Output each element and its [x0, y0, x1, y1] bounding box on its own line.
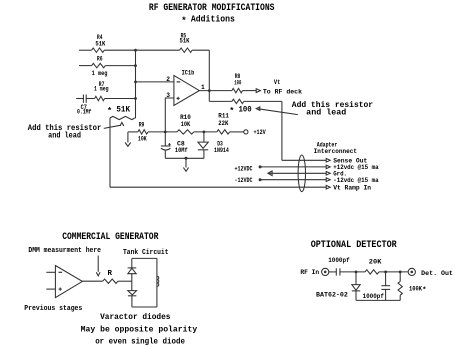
svg-text:1N914: 1N914	[214, 147, 229, 154]
label RF In	[300, 269, 319, 276]
node pin2 junction	[134, 81, 137, 84]
wire gnd to R9	[128, 131, 138, 133]
note add this resistor right	[292, 100, 373, 110]
arrow -12vdc	[326, 178, 330, 182]
svg-text:51K: 51K	[116, 107, 130, 115]
svg-text:1 meg: 1 meg	[94, 86, 109, 93]
label +12V	[254, 129, 266, 136]
svg-text:1000pf: 1000pf	[363, 293, 385, 300]
value C8 10Mf	[175, 147, 188, 154]
value R8 100	[234, 80, 241, 87]
resistor pot 51K	[110, 116, 135, 119]
wire cap to 20K	[340, 271, 365, 273]
wire +12vdc	[260, 166, 326, 168]
label R	[108, 270, 113, 278]
svg-text:To RF deck: To RF deck	[263, 88, 302, 95]
svg-text:R6: R6	[97, 56, 103, 63]
value R5 51K	[180, 38, 190, 45]
node diode junction	[355, 271, 358, 274]
label Adapter	[317, 141, 338, 148]
svg-text:10K: 10K	[138, 136, 147, 143]
label R9	[139, 122, 145, 129]
arrow +12vdc	[326, 165, 330, 169]
wire to op-amp pin 2	[136, 81, 174, 83]
node cap2 junction	[384, 271, 387, 274]
svg-text:1000pf: 1000pf	[328, 257, 350, 264]
node +12vdc dot	[259, 165, 262, 168]
svg-text:or even single diode: or even single diode	[95, 338, 185, 346]
svg-text:Vt Ramp In: Vt Ramp In	[333, 184, 371, 191]
wire star100 left	[209, 100, 232, 102]
op-amp U2 plus	[59, 288, 62, 291]
note or even single diode	[95, 338, 185, 346]
tank bottom rail	[132, 306, 157, 308]
wire diode stem	[355, 272, 357, 285]
inductor L1	[157, 276, 159, 286]
wire sense vertical	[281, 101, 283, 160]
wire C8-D3 rail	[165, 157, 204, 159]
op-amp plus sign	[177, 97, 180, 100]
wire R5 right corner	[192, 49, 209, 51]
svg-text:*: *	[181, 15, 187, 26]
svg-text:Tank Circuit: Tank Circuit	[123, 249, 169, 257]
arrow grd left	[268, 171, 272, 176]
value R7 1 meg	[94, 86, 109, 93]
resistor 20K	[365, 270, 379, 274]
value R10 10K	[181, 121, 191, 128]
node R7 junction	[134, 97, 137, 100]
svg-text:DMM measurment here: DMM measurment here	[28, 247, 101, 255]
label C8	[177, 141, 185, 148]
wire R10 to R11	[194, 131, 217, 133]
value 20K	[369, 259, 382, 266]
tank left stem	[131, 258, 133, 268]
label R7	[99, 81, 105, 88]
resistor R8	[232, 88, 243, 92]
wire pot left down	[109, 118, 111, 187]
resistor star 100	[232, 99, 244, 103]
capacitor C8	[161, 143, 171, 150]
title text RF GENERATOR MODIFICATIONS	[149, 2, 275, 13]
wire varactor bottom stem	[131, 296, 133, 307]
resistor R9	[138, 130, 148, 134]
detector bottom rail	[356, 299, 400, 301]
label Interconnect	[314, 148, 358, 155]
label -12VDC	[235, 177, 253, 184]
svg-text:51K: 51K	[95, 41, 105, 48]
wire feedback vertical	[208, 50, 210, 101]
resistor R11	[217, 130, 230, 134]
varactor D_bottom	[128, 291, 137, 296]
wire R9 to junction	[148, 131, 177, 133]
arrow to RF deck	[256, 89, 260, 93]
svg-text:Vt: Vt	[274, 79, 280, 86]
resistor R4	[92, 48, 105, 52]
svg-text:100: 100	[234, 80, 241, 87]
terminal +12V	[244, 130, 248, 134]
resistor R10	[177, 130, 194, 134]
label R11	[218, 113, 229, 120]
wire R4 left	[79, 49, 92, 51]
wire D3 stem bottom	[203, 150, 205, 159]
tank right wire	[156, 258, 158, 307]
resistor R	[103, 279, 118, 283]
resistor R7	[95, 96, 105, 100]
wire rfin to cap	[329, 271, 337, 273]
label Sense Out	[333, 158, 367, 165]
svg-text:OPTIONAL DETECTOR: OPTIONAL DETECTOR	[311, 239, 397, 250]
svg-text:-12vdc @15 ma: -12vdc @15 ma	[333, 177, 379, 184]
svg-text:100K: 100K	[409, 286, 422, 293]
capacitor coupling 1000pf	[336, 268, 340, 275]
node R4-R5 junction	[134, 49, 137, 52]
value R4 51K	[95, 41, 105, 48]
node R6 junction	[134, 64, 137, 67]
diode BAT62-02	[352, 285, 360, 291]
title OPTIONAL DETECTOR	[311, 239, 397, 250]
varactor D_top	[128, 268, 137, 274]
cable ellipse	[298, 155, 305, 192]
label BAT62-02	[316, 291, 348, 298]
node output-feedback junction	[208, 89, 211, 92]
label D3	[217, 140, 223, 147]
wire C8 to rail	[164, 151, 166, 159]
wire R7 right	[105, 98, 136, 100]
value R9 10K	[138, 136, 147, 143]
label * 100	[229, 106, 252, 116]
wire R6 left	[79, 65, 92, 67]
svg-text:Interconnect: Interconnect	[314, 148, 358, 155]
note and lead left	[48, 132, 81, 140]
wire varactor mid	[131, 274, 133, 291]
svg-text:IC1b: IC1b	[182, 70, 195, 77]
note May be opposite polarity	[81, 326, 198, 334]
label R8	[235, 73, 241, 80]
value 1000pf shunt	[363, 293, 385, 300]
label -12vdc @15 ma	[333, 177, 379, 184]
wire pot to bus	[134, 117, 137, 119]
label Vt	[274, 79, 280, 86]
label Previous stages	[24, 305, 82, 313]
title COMMERCIAL GENERATOR	[62, 231, 158, 242]
wire R6 right	[105, 65, 135, 67]
op-amp IC1b	[174, 75, 199, 105]
op-amp minus sign	[177, 81, 181, 83]
svg-text:100: 100	[239, 107, 252, 115]
value R11 22K	[218, 120, 228, 127]
label Vt Ramp In	[333, 184, 371, 191]
ground R9 stem	[127, 132, 129, 143]
resistor R6	[92, 63, 106, 67]
svg-text:10K: 10K	[181, 121, 191, 128]
svg-text:51K: 51K	[180, 38, 190, 45]
wire 20K to out	[379, 271, 408, 273]
terminal RF In	[322, 268, 329, 275]
wire -12vdc	[260, 179, 326, 181]
svg-text:and lead: and lead	[48, 132, 81, 140]
wire cap2 to rail	[385, 289, 387, 300]
wire 100K to rail	[399, 295, 401, 300]
wire star100 right	[244, 100, 282, 102]
svg-text:*: *	[229, 106, 234, 116]
arrow grd right	[326, 172, 330, 176]
note add this resistor left	[28, 125, 102, 133]
ground rail	[183, 168, 188, 172]
value R6 1 meg	[92, 70, 108, 77]
node pin3 RC junction	[164, 131, 167, 134]
wire sense out	[282, 159, 326, 161]
leader DMM arrow	[96, 256, 100, 276]
svg-text:22K: 22K	[218, 120, 228, 127]
wire pin3 to C8	[164, 132, 166, 146]
wire R to tank	[118, 280, 132, 282]
label Det. Out	[421, 270, 453, 277]
pin 1 label	[201, 84, 205, 91]
svg-text:R11: R11	[218, 113, 229, 120]
capacitor 1000pf shunt	[381, 286, 390, 290]
label To RF deck	[263, 88, 302, 95]
node -12vdc dot	[259, 178, 262, 181]
resistor R5	[180, 48, 193, 52]
wire C7 left stub	[76, 98, 83, 100]
wire diode to rail	[355, 291, 357, 301]
svg-text:2: 2	[166, 76, 170, 83]
wire R4 right to R5	[104, 49, 179, 51]
wire Vt ramp horizontal	[110, 186, 326, 188]
label Grd.	[333, 171, 347, 178]
wire 100K stem	[399, 272, 401, 282]
svg-text:10Mf: 10Mf	[175, 147, 188, 154]
wire D3 stem top	[203, 132, 205, 142]
leader to star100	[256, 107, 298, 115]
wire U2 in1	[46, 271, 55, 273]
svg-text:Previous stages: Previous stages	[24, 305, 82, 313]
svg-text:COMMERCIAL GENERATOR: COMMERCIAL GENERATOR	[62, 231, 158, 242]
node 100K junction	[399, 271, 402, 274]
wire input bus vertical	[135, 50, 137, 118]
terminal Det Out	[408, 268, 415, 275]
note and lead right	[306, 107, 346, 117]
wire R11 to terminal	[230, 131, 244, 133]
note Varactor diodes	[100, 314, 171, 322]
label +12vdc @15 ma	[333, 164, 379, 171]
svg-text:0.1Mf: 0.1Mf	[77, 109, 92, 116]
arrow sense out	[326, 159, 330, 163]
svg-text:+12V: +12V	[254, 129, 266, 136]
note DMM measurment here	[28, 247, 101, 255]
pin 2 label	[166, 76, 170, 83]
wire U2 out	[82, 280, 102, 282]
svg-text:*: *	[422, 287, 426, 295]
svg-text:1 meg: 1 meg	[92, 70, 108, 77]
value D3 1N914	[214, 147, 229, 154]
label R5	[181, 33, 187, 40]
wire grd	[268, 172, 326, 174]
svg-text:May be opposite polarity: May be opposite polarity	[81, 326, 198, 334]
label R4	[97, 34, 103, 41]
subtitle text Additions	[181, 14, 235, 26]
svg-text:BAT62-02: BAT62-02	[316, 291, 348, 298]
pin 3 label	[166, 92, 170, 99]
ground rail stem	[185, 157, 188, 168]
label IC1b	[182, 70, 195, 77]
pot wiper arrow	[120, 122, 124, 126]
value C7 0.1Mf	[77, 109, 92, 116]
label R6	[97, 56, 103, 63]
capacitor C7	[83, 95, 86, 103]
node D3 junction	[203, 131, 206, 134]
tank top rail	[132, 257, 157, 259]
resistor 100K	[398, 281, 402, 295]
label +12VDC	[235, 166, 253, 173]
svg-text:20K: 20K	[369, 259, 382, 266]
svg-text:Det. Out: Det. Out	[421, 270, 453, 277]
svg-text:*: *	[107, 106, 112, 116]
wire op-amp output	[199, 90, 232, 92]
wire cap2 stem	[385, 272, 387, 286]
arrow vt ramp	[326, 185, 330, 189]
svg-text:R9: R9	[139, 122, 145, 129]
wire U2 in2	[46, 288, 55, 290]
svg-text:1: 1	[201, 84, 205, 91]
svg-text:-12VDC: -12VDC	[235, 177, 253, 184]
wire C7 to R7	[86, 98, 94, 100]
wire R8 to arrow	[243, 90, 257, 92]
label R10	[180, 114, 191, 121]
leader to pot	[104, 125, 121, 128]
label Tank Circuit	[123, 249, 169, 257]
op-amp U2	[55, 266, 82, 298]
svg-text:+12VDC: +12VDC	[235, 166, 253, 173]
label C7	[81, 104, 88, 111]
svg-text:RF GENERATOR MODIFICATIONS: RF GENERATOR MODIFICATIONS	[149, 2, 275, 13]
diode D3	[198, 142, 209, 150]
svg-text:Additions: Additions	[191, 14, 235, 25]
label pot * 51K	[107, 106, 130, 116]
svg-text:R: R	[108, 270, 113, 278]
svg-text:and lead: and lead	[306, 107, 346, 117]
svg-text:Varactor diodes: Varactor diodes	[100, 314, 171, 322]
svg-text:RF In: RF In	[300, 269, 319, 276]
op-amp U2 minus	[59, 271, 63, 273]
ground R9	[125, 143, 131, 147]
value 1000pf coupling	[328, 257, 350, 264]
label 100K*	[409, 286, 427, 295]
wire pin 3	[165, 98, 174, 132]
